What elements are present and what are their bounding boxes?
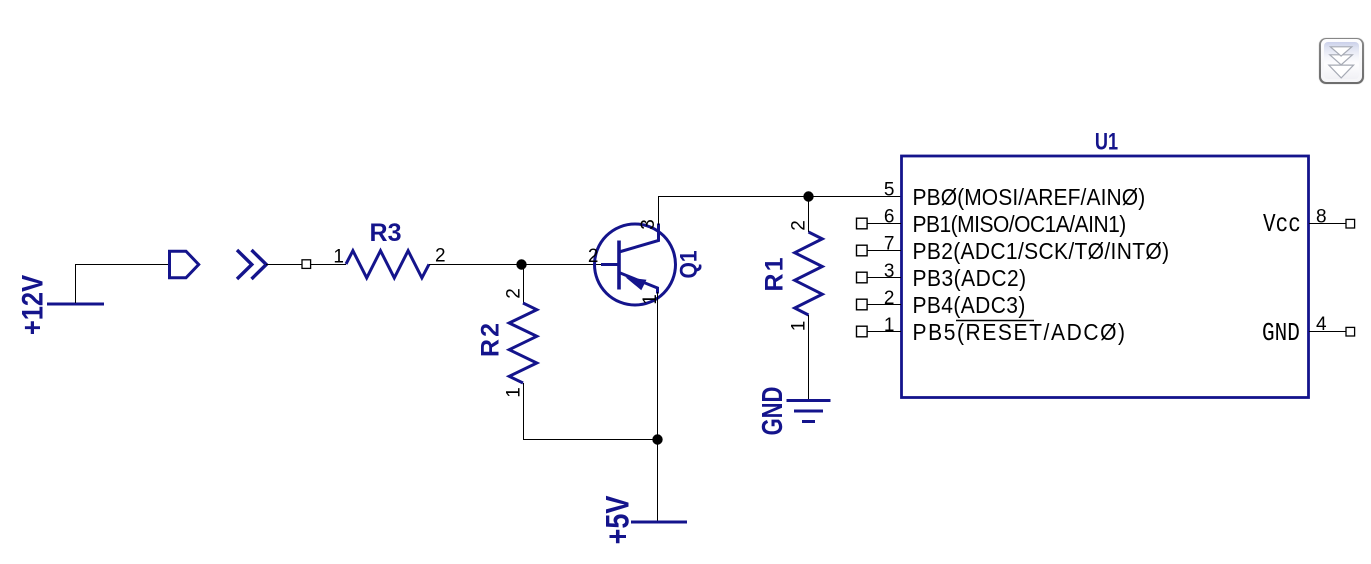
wire to +5V: [657, 440, 659, 522]
pin square 4: [1346, 327, 1355, 336]
svg-text:+12V: +12V: [16, 274, 49, 335]
svg-text:PB4(ADC3): PB4(ADC3): [913, 292, 1026, 318]
pin number 4: [1316, 314, 1327, 335]
svg-text:Q1: Q1: [675, 251, 702, 279]
wire pin 7: [867, 250, 901, 252]
net label +5V: [600, 496, 636, 545]
svg-text:3: 3: [884, 261, 895, 282]
wire R1 to GND: [808, 315, 810, 399]
svg-text:R3: R3: [370, 219, 402, 247]
svg-text:PB2(ADC1/SCK/TØ/INTØ): PB2(ADC1/SCK/TØ/INTØ): [913, 238, 1170, 264]
wire chevron to pin square: [266, 264, 302, 266]
off-page connector port: [170, 251, 199, 278]
pin number 1 of R2: [504, 387, 525, 398]
pin square R3 pin1: [302, 260, 311, 269]
svg-text:5: 5: [884, 180, 895, 201]
pin number 6: [884, 207, 895, 228]
Q1 collector lead: [619, 224, 659, 253]
svg-text:2: 2: [504, 288, 525, 299]
svg-text:1: 1: [333, 247, 344, 268]
svg-text:Vcc: Vcc: [1263, 210, 1301, 240]
pin name PB0: [913, 184, 1146, 210]
pin number 1 of R3: [333, 247, 344, 268]
pin number 5: [884, 180, 895, 201]
pin name PB4: [913, 292, 1026, 318]
wire +12V stem: [76, 265, 170, 304]
pin number 8: [1316, 207, 1327, 228]
svg-text:2: 2: [884, 288, 895, 309]
wire square to R3: [311, 264, 346, 266]
IC U1 box: [902, 156, 1309, 398]
pin square 2: [857, 299, 868, 310]
wire pin 2: [867, 304, 901, 306]
wire collector to PB0: [659, 197, 902, 226]
pin number 2 of Q1 base: [588, 246, 599, 267]
svg-text:2: 2: [789, 220, 810, 231]
pin number 2: [884, 288, 895, 309]
power symbol +5V bar: [631, 521, 687, 524]
svg-text:R2: R2: [477, 321, 505, 357]
svg-text:8: 8: [1316, 207, 1327, 228]
pin number 2 of R1: [789, 220, 810, 231]
svg-text:PB1(MISO/OC1A/AIN1): PB1(MISO/OC1A/AIN1): [913, 211, 1126, 237]
Q1 base bar: [617, 241, 621, 290]
svg-text:4: 4: [1316, 314, 1327, 335]
wire R3 to Q1 base: [429, 264, 602, 266]
svg-text:2: 2: [588, 246, 599, 267]
svg-text:6: 6: [884, 207, 895, 228]
net label +12V: [16, 274, 49, 335]
svg-text:R1: R1: [761, 256, 789, 292]
button arrows: [1319, 38, 1364, 85]
svg-text:PB5(RESET/ADCØ): PB5(RESET/ADCØ): [913, 319, 1127, 345]
wire R2 to emitter junction: [524, 383, 658, 440]
power symbol +12V bar: [47, 303, 104, 306]
RESET overline: [956, 320, 1034, 322]
junction node collector/R1: [803, 191, 813, 201]
label R3: [370, 219, 402, 247]
pin number 2 of R3: [435, 246, 446, 267]
Q1 base lead: [601, 263, 619, 266]
wire pin 1: [867, 331, 901, 333]
pin number 1 of Q1 emitter: [640, 294, 661, 305]
toolbar button icon: [1319, 38, 1364, 84]
wire junction to R2: [523, 265, 525, 304]
label R1: [761, 256, 789, 292]
pin name PB3: [913, 265, 1027, 291]
svg-text:7: 7: [884, 234, 895, 255]
svg-text:U1: U1: [1095, 127, 1118, 155]
svg-text:3: 3: [638, 219, 659, 230]
svg-text:2: 2: [435, 246, 446, 267]
resistor R2: [509, 303, 537, 383]
resistor R3: [346, 251, 429, 278]
transistor Q1 circle: [595, 224, 676, 305]
svg-text:PBØ(MOSI/AREF/AINØ): PBØ(MOSI/AREF/AINØ): [913, 184, 1146, 210]
pin number 3 of Q1 collector: [638, 219, 659, 230]
pin square 1: [857, 326, 868, 337]
svg-text:1: 1: [884, 315, 895, 336]
svg-text:GND: GND: [1262, 319, 1300, 349]
pin name PB5: [913, 319, 1127, 345]
wire pin 3: [867, 277, 901, 279]
ground symbol: [787, 401, 831, 422]
pin number 7: [884, 234, 895, 255]
label R2: [477, 321, 505, 357]
svg-text:PB3(ADC2): PB3(ADC2): [913, 265, 1027, 291]
pin name PB2: [913, 238, 1170, 264]
pin name PB1: [913, 211, 1126, 237]
junction node emitter/R2/+5V: [652, 434, 662, 444]
svg-text:1: 1: [789, 321, 810, 332]
pin number 2 of R2: [504, 288, 525, 299]
svg-text:1: 1: [504, 387, 525, 398]
wire emitter down: [657, 292, 659, 440]
pin square 8: [1346, 219, 1355, 228]
pin square 6: [857, 218, 868, 229]
Q1 emitter lead: [619, 273, 658, 294]
pin number 1: [884, 315, 895, 336]
chevron connector: [237, 250, 266, 279]
net label GND: [757, 387, 788, 436]
pin name Vcc: [1263, 210, 1301, 240]
wire pin 6: [867, 223, 901, 225]
label U1: [1095, 127, 1118, 155]
pin number 1 of R1: [789, 321, 810, 332]
label Q1: [675, 251, 702, 279]
svg-text:+5V: +5V: [600, 496, 636, 545]
pin square 7: [857, 245, 868, 256]
wire pin 4: [1309, 331, 1346, 333]
wire junction to R1: [808, 197, 810, 233]
pin name GND: [1262, 319, 1300, 349]
pin square 3: [857, 272, 868, 283]
resistor R1: [795, 232, 823, 315]
Q1 emitter arrow: [626, 277, 647, 290]
svg-text:GND: GND: [757, 387, 788, 436]
pin number 3: [884, 261, 895, 282]
junction node R3/R2/base: [516, 259, 526, 269]
wire pin 8: [1309, 223, 1346, 225]
